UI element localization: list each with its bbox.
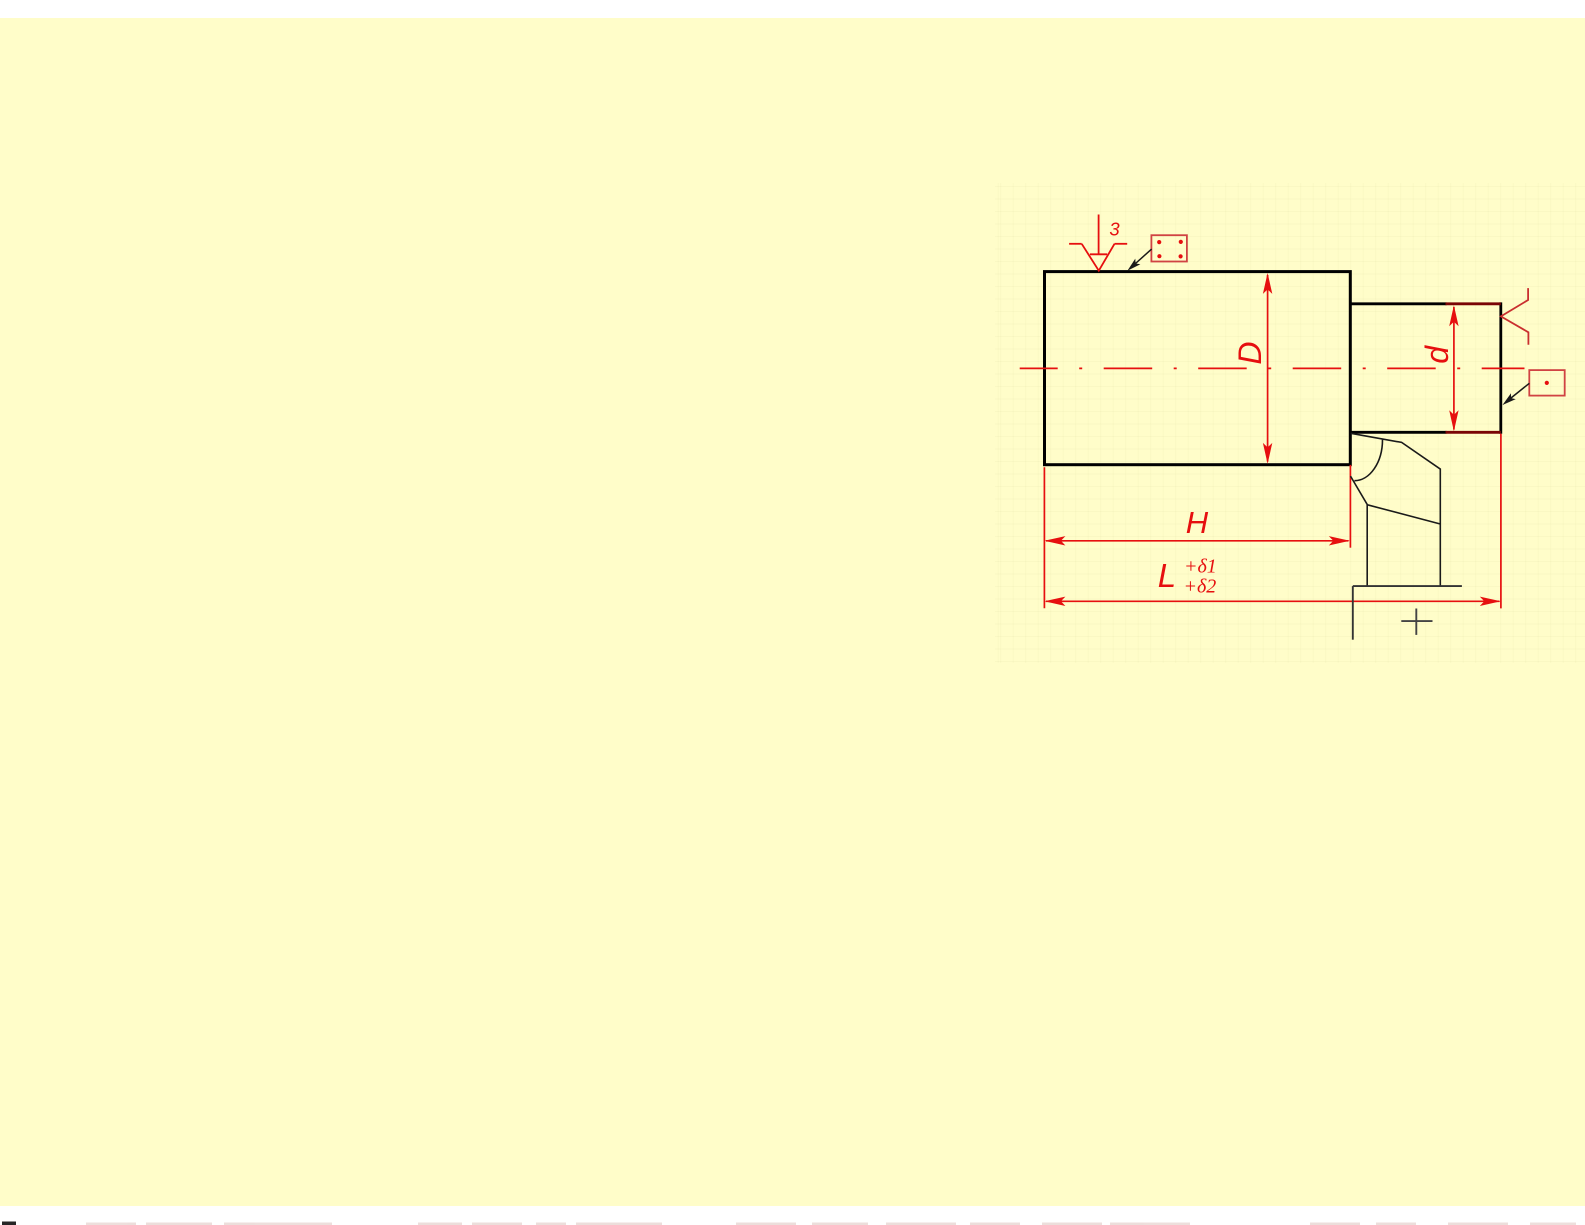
callout box B (1 dot) <box>1529 370 1564 396</box>
dimension L line <box>1046 600 1500 602</box>
svg-text:3: 3 <box>1109 218 1120 239</box>
dimension L arrow left <box>1044 597 1065 606</box>
dimension L arrow right <box>1480 597 1501 606</box>
dimension H arrow left <box>1044 536 1065 545</box>
workpiece small cylinder step <box>1350 302 1501 433</box>
svg-text:H: H <box>1186 505 1209 540</box>
tool shank right <box>1439 524 1441 586</box>
tool chip-breaker arc <box>1354 440 1382 481</box>
centerline (dash-dot axis) <box>1020 367 1525 369</box>
leader arrow to top surface <box>1131 249 1152 267</box>
extension line middle (H right) <box>1349 465 1351 548</box>
surface finish symbol top (triangle with stem) <box>1069 215 1127 271</box>
surface finish check symbol right (rotated) <box>1501 288 1529 345</box>
position cross mark <box>1401 609 1432 635</box>
dimension d arrow down <box>1449 410 1458 431</box>
tool holder top <box>1353 585 1462 587</box>
tool holder left edge <box>1352 586 1354 640</box>
svg-text:+δ2: +δ2 <box>1184 576 1217 598</box>
dimension D line <box>1267 275 1269 462</box>
box A dots <box>1157 240 1183 259</box>
dimension H arrow right <box>1329 536 1350 545</box>
label D <box>1232 342 1268 365</box>
svg-text:+δ1: +δ1 <box>1184 556 1217 578</box>
tool shank left <box>1366 505 1368 586</box>
clipped caption fragments at bottom edge <box>2 1222 1576 1225</box>
leader arrow to end face <box>1506 383 1529 402</box>
svg-text:d: d <box>1419 345 1455 364</box>
svg-text:L: L <box>1158 557 1176 594</box>
workpiece large cylinder body <box>1045 272 1351 465</box>
dimension d line <box>1453 307 1455 430</box>
callout box A (4 dots) <box>1151 235 1187 261</box>
extension line left <box>1043 467 1045 608</box>
small cylinder dark red edge overlaps <box>1446 304 1501 433</box>
box B dot <box>1545 381 1549 385</box>
dimension D arrow up <box>1263 273 1272 294</box>
label d <box>1419 345 1455 364</box>
dimension d arrow up <box>1449 305 1458 326</box>
extension line right (L) <box>1500 434 1502 609</box>
dimension H line <box>1046 540 1349 542</box>
dimension D arrow down <box>1263 443 1272 464</box>
svg-text:D: D <box>1232 342 1268 365</box>
cutting tool head outline <box>1351 433 1441 586</box>
